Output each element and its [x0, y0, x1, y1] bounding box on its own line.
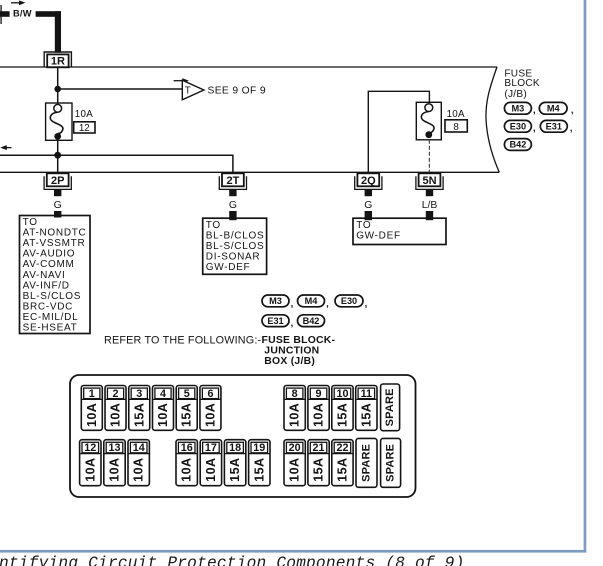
connector 1R — [44, 52, 71, 68]
svg-text:10A: 10A — [203, 403, 217, 427]
svg-text:REFER TO THE FOLLOWING:-: REFER TO THE FOLLOWING:- — [104, 335, 262, 347]
wire label G at 2Q — [364, 200, 372, 220]
svg-text:15A: 15A — [359, 403, 373, 427]
svg-text:2: 2 — [113, 388, 119, 400]
connector 2Q — [355, 173, 382, 196]
fuse number box 8 — [445, 120, 467, 133]
svg-text:15A: 15A — [335, 403, 349, 427]
svg-text:TO: TO — [206, 220, 221, 231]
connector 2T — [219, 173, 246, 196]
destination box TO BL-B/CLOS ... (middle list) — [203, 218, 267, 274]
connector oval E30 (note row) — [335, 295, 363, 307]
connector oval E31 (right column) — [540, 120, 567, 132]
wire B/W feed from previous page (cut mark) — [0, 5, 10, 24]
svg-text:SPARE: SPARE — [361, 444, 373, 482]
svg-text:G: G — [54, 200, 62, 211]
svg-text:10A: 10A — [180, 457, 194, 481]
wire connector 2Q up and across to fuse 8 — [368, 91, 429, 172]
svg-text:SPARE: SPARE — [385, 444, 397, 482]
wire node B to connector 2T — [0, 155, 233, 172]
svg-text:GW-DEF: GW-DEF — [356, 231, 401, 242]
fuse 17 (10A) — [200, 440, 221, 486]
svg-text:12: 12 — [84, 442, 96, 454]
fuse 16 (10A) — [176, 440, 197, 486]
svg-text:BL-S/CLOS: BL-S/CLOS — [206, 241, 265, 252]
svg-text:E30: E30 — [510, 122, 526, 132]
note FUSE BLOCK-JUNCTION BOX (J/B) — [262, 335, 336, 367]
svg-text:B42: B42 — [303, 316, 320, 326]
svg-text:JUNCTION: JUNCTION — [264, 345, 319, 356]
fuse 5 (15A) — [176, 386, 197, 431]
svg-text:5N: 5N — [422, 175, 436, 187]
connector oval E31 (note row) — [262, 315, 289, 327]
svg-text:G: G — [364, 200, 372, 211]
svg-text:AV-INF/D: AV-INF/D — [23, 280, 70, 291]
svg-text:B42: B42 — [509, 140, 526, 150]
fuse 14 (10A) — [128, 440, 149, 486]
svg-text:,: , — [533, 105, 536, 116]
svg-text:20: 20 — [289, 442, 301, 454]
wire thick B/W to connector 1R — [36, 11, 61, 53]
wire label G at 2P — [54, 200, 62, 218]
fuse 22 (15A) — [332, 440, 353, 486]
arrow (current flow right) above B/W — [11, 0, 25, 5]
fuse 8 (10A) — [284, 386, 305, 431]
svg-text:ntifying Circuit Protection Co: ntifying Circuit Protection Components (… — [0, 555, 465, 566]
svg-text:AT-VSSMTR: AT-VSSMTR — [23, 238, 86, 249]
svg-text:5: 5 — [184, 388, 190, 400]
svg-text:14: 14 — [133, 442, 145, 454]
svg-text:17: 17 — [205, 442, 217, 454]
svg-text:10A: 10A — [288, 403, 302, 427]
svg-text:,: , — [533, 123, 536, 134]
fuse 12 (10A) symbol — [46, 103, 72, 140]
wire label L/B at 5N — [422, 200, 438, 220]
fuse 8 (10A) symbol — [416, 102, 441, 140]
svg-text:E30: E30 — [341, 296, 357, 306]
svg-text:AV-NAVI: AV-NAVI — [23, 270, 66, 281]
svg-text:10: 10 — [336, 388, 348, 400]
svg-text:T: T — [185, 86, 191, 97]
svg-text:2Q: 2Q — [361, 175, 376, 187]
svg-text:M3: M3 — [512, 104, 525, 114]
wire node A to off-page triangle — [58, 88, 183, 90]
fuse 4 (10A) — [152, 386, 173, 431]
svg-text:BRC-VDC: BRC-VDC — [23, 301, 73, 312]
svg-text:1R: 1R — [51, 56, 65, 68]
svg-text:TO: TO — [356, 220, 371, 231]
fuse 3 (15A) — [129, 386, 150, 431]
fuse 18 (15A) — [224, 440, 245, 486]
svg-text:SE-HSEAT: SE-HSEAT — [23, 323, 78, 334]
spare fuse (row 2, second) — [381, 438, 401, 487]
svg-text:10A: 10A — [85, 403, 99, 427]
fuse 20 (10A) — [284, 440, 305, 486]
fuse 1 (10A) — [81, 386, 102, 431]
fuse 12 (10A) — [80, 440, 101, 486]
svg-text:2T: 2T — [226, 175, 239, 187]
svg-text:16: 16 — [181, 442, 193, 454]
svg-text:AT-NONDTC: AT-NONDTC — [23, 228, 87, 239]
svg-text:E31: E31 — [546, 122, 562, 132]
svg-text:11: 11 — [361, 388, 372, 400]
connector oval M4 (note row) — [298, 295, 325, 307]
fuse 21 (15A) — [308, 440, 329, 486]
wire fuse 12 to node B — [57, 140, 59, 155]
svg-text:10A: 10A — [109, 403, 123, 427]
svg-text:AV-AUDIO: AV-AUDIO — [23, 249, 76, 260]
svg-text:BL-S/CLOS: BL-S/CLOS — [23, 291, 82, 302]
destination box TO AT-NONDTC ... (left list) — [20, 216, 91, 334]
svg-text:10A: 10A — [204, 457, 218, 481]
svg-text:3: 3 — [136, 388, 142, 400]
spare fuse (row 1) — [381, 384, 400, 431]
connector oval M3 (right column) — [504, 102, 531, 114]
svg-text:10A: 10A — [108, 457, 122, 481]
svg-text:19: 19 — [253, 442, 265, 454]
connector 5N — [416, 173, 443, 196]
fuse 11 (15A) — [356, 386, 377, 431]
svg-text:4: 4 — [160, 388, 166, 400]
svg-text:,: , — [365, 298, 368, 309]
svg-text:10A: 10A — [83, 457, 97, 481]
svg-text:10A: 10A — [288, 457, 302, 481]
spare fuse (row 2, first) — [356, 438, 377, 487]
svg-text:6: 6 — [207, 388, 213, 400]
svg-text:SPARE: SPARE — [384, 388, 396, 426]
svg-text:FUSE BLOCK-: FUSE BLOCK- — [262, 335, 336, 346]
wire node A down to fuse 12 — [57, 89, 59, 106]
svg-text:(J/B): (J/B) — [504, 89, 527, 100]
svg-text:2P: 2P — [51, 175, 64, 187]
svg-text:10A: 10A — [156, 403, 170, 427]
connector oval B42 (right column) — [504, 139, 531, 151]
label FUSE BLOCK (J/B) — [504, 69, 539, 100]
node A junction dot — [54, 86, 61, 93]
svg-text:8: 8 — [292, 388, 298, 400]
svg-text:GW-DEF: GW-DEF — [206, 262, 251, 273]
connector oval E30 (right column) — [504, 120, 531, 132]
svg-text:BLOCK: BLOCK — [504, 78, 539, 89]
wire label G at 2T — [229, 200, 237, 220]
svg-text:21: 21 — [313, 442, 325, 454]
svg-text:SEE 9 OF 9: SEE 9 OF 9 — [208, 85, 266, 96]
fuse 19 (15A) — [249, 440, 270, 486]
svg-text:10A: 10A — [312, 403, 326, 427]
svg-text:L/B: L/B — [422, 200, 438, 211]
svg-text:9: 9 — [316, 388, 322, 400]
svg-text:15A: 15A — [228, 457, 242, 481]
svg-text:BOX (J/B): BOX (J/B) — [264, 356, 315, 367]
svg-text:13: 13 — [108, 442, 120, 454]
svg-text:,: , — [571, 105, 574, 116]
connector oval B42 (note row) — [298, 315, 325, 327]
svg-text:18: 18 — [229, 442, 241, 454]
svg-text:M4: M4 — [547, 104, 561, 114]
connector 2P — [44, 173, 71, 196]
svg-text:10A: 10A — [75, 109, 93, 120]
svg-text:15A: 15A — [312, 457, 326, 481]
svg-text:AV-COMM: AV-COMM — [23, 259, 75, 270]
wire node B down to connector 2P — [57, 155, 59, 172]
fuse 6 (10A) — [200, 386, 221, 431]
svg-text:B/W: B/W — [13, 8, 32, 18]
svg-text:,: , — [291, 298, 294, 309]
node B junction dot — [54, 152, 61, 159]
svg-text:8: 8 — [453, 122, 459, 133]
svg-text:1: 1 — [89, 388, 95, 400]
svg-text:15A: 15A — [252, 457, 266, 481]
svg-text:10A: 10A — [132, 457, 146, 481]
fuse number box 12 — [74, 122, 95, 134]
svg-text:,: , — [326, 298, 329, 309]
svg-text:M4: M4 — [305, 296, 319, 306]
svg-text:22: 22 — [336, 442, 348, 454]
svg-text:E31: E31 — [267, 316, 283, 326]
svg-text:M3: M3 — [269, 296, 282, 306]
svg-text:G: G — [229, 200, 237, 211]
svg-text:,: , — [291, 318, 294, 329]
svg-text:15A: 15A — [132, 403, 146, 427]
fuse 13 (10A) — [104, 440, 125, 486]
wire fuse 8 down to connector 5N — [428, 140, 430, 173]
svg-text:BL-B/CLOS: BL-B/CLOS — [206, 231, 265, 242]
fuse 2 (10A) — [105, 386, 126, 431]
wire 1R down to node A — [57, 67, 59, 89]
fuse box panel outline — [70, 375, 416, 497]
arrow (current flow right) above wire — [174, 78, 189, 83]
svg-text:15A: 15A — [335, 457, 349, 481]
fuse 10 (15A) — [332, 386, 353, 431]
connector oval M3 (note row) — [262, 295, 289, 307]
svg-text:10A: 10A — [447, 109, 465, 120]
fuse 9 (10A) — [308, 386, 329, 431]
svg-text:EC-MIL/DL: EC-MIL/DL — [23, 312, 79, 323]
fuse block J/B band outline — [0, 67, 499, 172]
svg-text:DI-SONAR: DI-SONAR — [206, 252, 260, 263]
connector oval M4 (right column) — [539, 102, 567, 114]
svg-text:12: 12 — [79, 123, 90, 134]
arrow (current flow left) at left edge — [0, 145, 11, 150]
svg-text:TO: TO — [23, 217, 38, 228]
destination box TO GW-DEF (right) — [353, 218, 446, 244]
svg-text:15A: 15A — [180, 403, 194, 427]
off-page connector triangle T : SEE 9 OF 9 — [182, 80, 266, 100]
svg-text:,: , — [570, 123, 573, 134]
